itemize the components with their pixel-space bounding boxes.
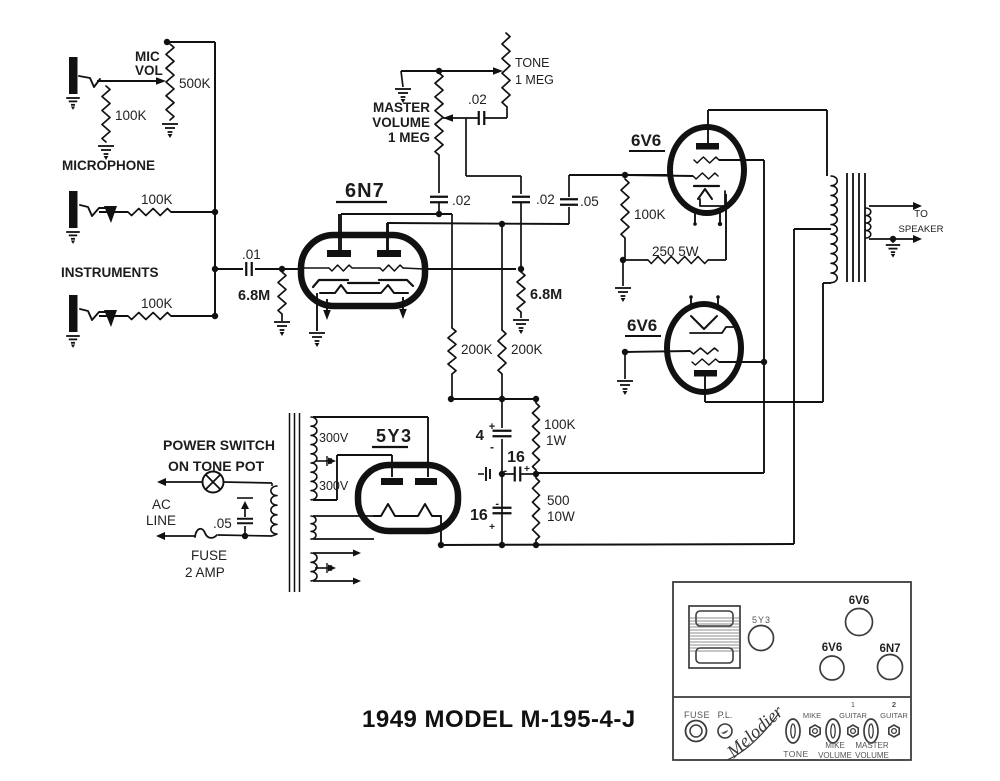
svg-text:100K: 100K: [141, 296, 173, 311]
svg-text:300V: 300V: [319, 431, 349, 445]
svg-text:300V: 300V: [319, 479, 349, 493]
svg-text:MIKE: MIKE: [803, 711, 821, 720]
svg-text:6V6: 6V6: [822, 642, 842, 654]
svg-text:1 MEG: 1 MEG: [515, 73, 554, 87]
svg-text:1: 1: [851, 700, 855, 709]
svg-text:VOLUME: VOLUME: [372, 115, 430, 130]
svg-text:500: 500: [547, 493, 570, 508]
svg-text:250 5W: 250 5W: [652, 244, 699, 259]
svg-text:6N7: 6N7: [879, 643, 900, 655]
svg-text:.05: .05: [213, 516, 232, 531]
svg-text:6V6: 6V6: [631, 131, 661, 150]
svg-text:.01: .01: [242, 247, 261, 262]
svg-text:VOLUME: VOLUME: [818, 751, 852, 760]
svg-text:FUSE: FUSE: [191, 548, 227, 563]
svg-text:MIKE: MIKE: [825, 741, 845, 750]
svg-text:MIC: MIC: [135, 49, 160, 64]
svg-text:100K: 100K: [141, 192, 173, 207]
svg-text:2 AMP: 2 AMP: [185, 565, 225, 580]
svg-text:+: +: [489, 421, 495, 433]
svg-text:-: -: [503, 465, 507, 477]
svg-text:2: 2: [892, 700, 896, 709]
svg-text:100K: 100K: [544, 417, 576, 432]
svg-text:200K: 200K: [511, 342, 543, 357]
svg-text:200K: 200K: [461, 342, 493, 357]
svg-text:.02: .02: [452, 193, 471, 208]
svg-text:AC: AC: [152, 497, 171, 512]
svg-text:100K: 100K: [115, 108, 147, 123]
svg-text:INSTRUMENTS: INSTRUMENTS: [61, 265, 159, 280]
svg-text:SPEAKER: SPEAKER: [899, 224, 944, 235]
svg-text:5Y3: 5Y3: [752, 615, 771, 625]
svg-text:.02: .02: [536, 192, 555, 207]
svg-text:10W: 10W: [547, 509, 575, 524]
svg-text:16: 16: [507, 449, 525, 466]
svg-text:FUSE: FUSE: [684, 710, 710, 720]
svg-text:P.L.: P.L.: [718, 710, 733, 720]
svg-text:+: +: [489, 522, 495, 533]
svg-text:-: -: [495, 498, 499, 510]
svg-text:VOLUME: VOLUME: [855, 751, 889, 760]
svg-text:TO: TO: [914, 209, 928, 220]
svg-text:.02: .02: [468, 92, 487, 107]
svg-text:1W: 1W: [546, 433, 567, 448]
svg-text:POWER SWITCH: POWER SWITCH: [163, 437, 275, 453]
svg-text:GUITAR: GUITAR: [880, 711, 908, 720]
svg-text:LINE: LINE: [146, 513, 176, 528]
svg-text:6.8M: 6.8M: [238, 288, 270, 304]
svg-text:TONE: TONE: [515, 56, 550, 70]
svg-text:100K: 100K: [634, 207, 666, 222]
svg-text:500K: 500K: [179, 76, 211, 91]
svg-text:VOL: VOL: [135, 63, 163, 78]
svg-text:+: +: [524, 464, 530, 475]
svg-text:MASTER: MASTER: [373, 100, 430, 115]
svg-text:5Y3: 5Y3: [376, 426, 413, 446]
svg-text:.05: .05: [580, 194, 599, 209]
svg-text:6V6: 6V6: [627, 316, 657, 335]
svg-text:TONE: TONE: [783, 749, 808, 759]
svg-text:6N7: 6N7: [345, 180, 385, 202]
svg-text:6V6: 6V6: [849, 595, 869, 607]
svg-text:MASTER: MASTER: [855, 741, 889, 750]
svg-text:6.8M: 6.8M: [530, 287, 562, 303]
svg-text:-: -: [490, 440, 494, 454]
svg-text:1949 MODEL M-195-4-J: 1949 MODEL M-195-4-J: [362, 706, 636, 733]
svg-text:16: 16: [470, 507, 488, 524]
svg-text:1 MEG: 1 MEG: [388, 130, 430, 145]
svg-text:MICROPHONE: MICROPHONE: [62, 158, 155, 173]
svg-text:4: 4: [476, 427, 485, 444]
svg-text:GUITAR: GUITAR: [839, 711, 867, 720]
